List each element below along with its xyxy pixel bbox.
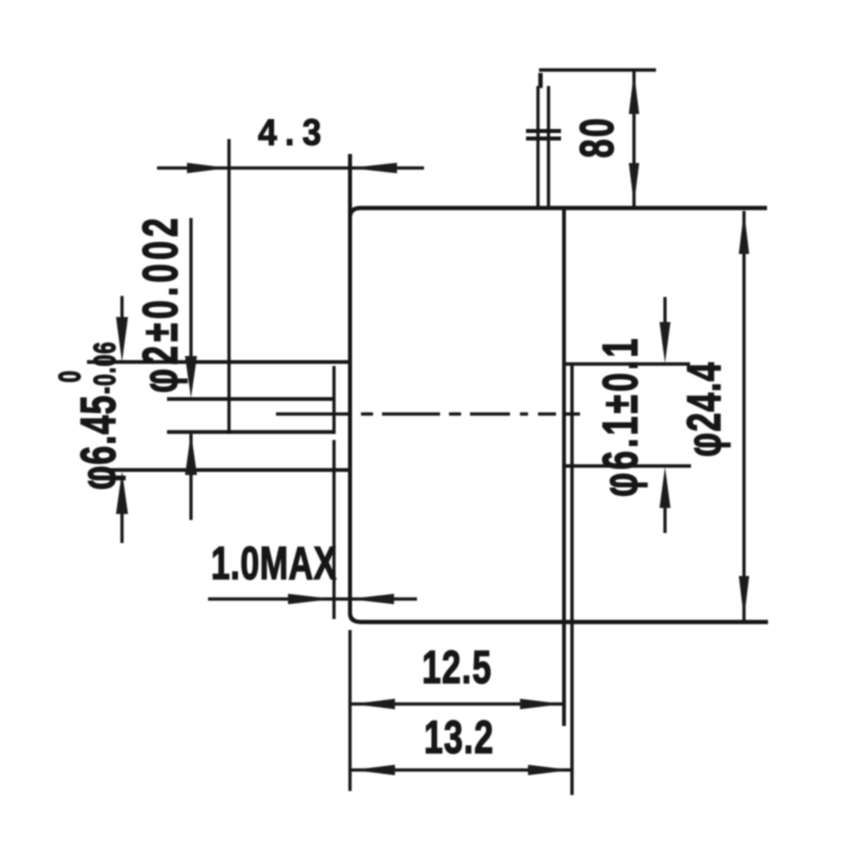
shaft bottom edge (167, 430, 334, 434)
motor body top edge (361, 206, 767, 210)
motor body left face / extension line (348, 154, 352, 613)
dim 80 bottom arrow (629, 163, 639, 205)
dim phi6.45 lower arrow (116, 471, 128, 514)
dim phi24.4 top arrow (739, 211, 749, 254)
motor body bottom-left corner (350, 613, 361, 622)
dim 13.2 left arrow (352, 765, 395, 775)
svg-text:φ2±0.002: φ2±0.002 (133, 214, 188, 393)
dim phi24.4 line (742, 211, 745, 620)
dim 1.0MAX right arrow (349, 594, 394, 604)
svg-text:4.3: 4.3 (258, 112, 329, 154)
dim phi6.1 upper arrow (660, 322, 671, 363)
dim 1.0MAX left arrow (288, 594, 333, 604)
wire break mark upper (526, 129, 561, 133)
dim 80 top arrow (629, 72, 639, 114)
dim 13.2 line (351, 768, 572, 771)
dim phi6.1 line lower (663, 503, 666, 533)
dim phi24.4 bottom arrow (739, 576, 749, 619)
lead wire left line (536, 86, 539, 207)
dim phi6.1 lower arrow (660, 467, 671, 508)
svg-text:80: 80 (570, 116, 623, 158)
motor body bottom edge (361, 620, 768, 624)
dim 4.3 left arrow (187, 163, 228, 173)
rear boss bottom edge (564, 464, 691, 468)
svg-text:φ24.4: φ24.4 (677, 362, 730, 457)
dim 12.5 left arrow (352, 699, 395, 709)
lead wire right line (547, 86, 550, 207)
dim 80 line (632, 71, 635, 206)
svg-text:13.2: 13.2 (424, 711, 494, 763)
dim phi2 line lower (189, 434, 192, 520)
left extension line below body (348, 630, 351, 791)
lead wire tip stub (538, 73, 542, 88)
shaft step line (332, 366, 335, 619)
shaft top edge (167, 397, 334, 401)
svg-text:1.0MAX: 1.0MAX (211, 537, 337, 589)
dim 4.3 line (157, 166, 424, 169)
front boss bottom edge (96, 468, 350, 472)
rear boss top edge (564, 362, 690, 366)
svg-text:φ6.1±0.1: φ6.1±0.1 (593, 336, 648, 497)
dim phi2 line upper (189, 218, 192, 360)
dim 12.5 right arrow (520, 699, 563, 709)
motor rear face (562, 208, 566, 726)
dim 12.5 line (351, 702, 564, 705)
dim phi6.45 upper arrow (116, 317, 128, 362)
rear boss tip face / extension line (570, 364, 573, 795)
dim phi6.45 line upper (120, 296, 123, 326)
dim 1.0MAX line (208, 597, 417, 600)
dim phi6.45 line lower (120, 508, 123, 543)
dim 4.3 right arrow (349, 163, 397, 173)
dim 80 extension line top (539, 68, 656, 71)
motor body top-left corner (350, 208, 361, 217)
dim phi6.1 line upper (663, 297, 666, 330)
svg-text:12.5: 12.5 (422, 641, 492, 693)
centerline (276, 412, 580, 415)
front boss top edge (87, 360, 350, 364)
extension line shaft tip (227, 139, 230, 434)
dim phi2 upper arrow (185, 356, 197, 398)
wire break mark lower (526, 137, 561, 141)
dim phi2 lower arrow (185, 433, 197, 475)
dim 13.2 right arrow (528, 765, 571, 775)
